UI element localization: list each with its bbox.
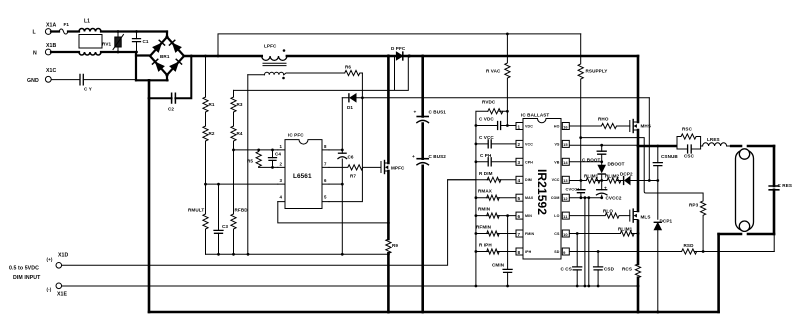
svg-text:MAX: MAX (525, 196, 534, 200)
capacitor CMIN (492, 214, 512, 287)
svg-text:+: + (414, 111, 417, 116)
svg-text:14: 14 (563, 160, 568, 165)
svg-text:FMIN: FMIN (525, 232, 534, 236)
resistor RLO (570, 209, 630, 219)
resistor R7 (329, 165, 381, 179)
wire aux return (247, 75, 249, 255)
wire top sense line (217, 34, 581, 57)
resistor R1 (203, 55, 215, 113)
svg-text:+: + (412, 155, 415, 160)
svg-text:X1C: X1C (46, 68, 57, 74)
resistor RSC (677, 127, 701, 147)
capacitor CSD (594, 252, 615, 288)
resistor RMAX (475, 189, 517, 201)
resistor RVAC (486, 33, 510, 112)
svg-text:8: 8 (518, 250, 521, 255)
wire lamp top leads (731, 145, 774, 148)
svg-text:16: 16 (563, 124, 568, 129)
svg-text:C Y: C Y (84, 87, 92, 92)
svg-text:VCC: VCC (552, 178, 560, 182)
svg-text:3: 3 (518, 160, 521, 165)
svg-text:RLO: RLO (603, 209, 613, 214)
svg-text:RHO: RHO (598, 117, 609, 122)
capacitor C1 (133, 30, 149, 53)
wire VS output (638, 145, 676, 148)
svg-text:5: 5 (518, 196, 521, 201)
svg-text:C RES: C RES (778, 183, 793, 188)
svg-text:6: 6 (518, 214, 521, 219)
svg-text:R3: R3 (237, 102, 243, 107)
capacitor CBUS1 (414, 55, 447, 159)
capacitor CSNUB (653, 145, 678, 220)
capacitor C6 (338, 153, 354, 159)
resistor RHO (570, 117, 630, 129)
svg-text:R9: R9 (392, 243, 398, 248)
lamp filament bottom (739, 221, 749, 231)
diode DCP2 (620, 172, 633, 185)
svg-text:CVCC1: CVCC1 (566, 187, 581, 192)
svg-text:R DIM: R DIM (479, 171, 493, 176)
svg-text:IR21592: IR21592 (535, 169, 549, 215)
capacitor CVCC2 (596, 181, 622, 201)
svg-text:F1: F1 (64, 22, 70, 27)
svg-text:L6561: L6561 (293, 173, 312, 180)
svg-text:X1A: X1A (46, 22, 57, 28)
svg-text:MIN: MIN (525, 214, 532, 218)
capacitor CRES (769, 146, 792, 234)
wire CS pin4 (278, 202, 390, 225)
svg-text:C VDC: C VDC (479, 117, 494, 122)
svg-text:15: 15 (563, 142, 568, 147)
svg-text:10: 10 (563, 232, 568, 237)
wire half-bridge vertical (637, 56, 640, 264)
wire dim return rail (62, 285, 638, 288)
svg-text:5: 5 (324, 195, 327, 200)
svg-text:2: 2 (280, 162, 283, 167)
svg-text:RMAX: RMAX (478, 189, 493, 194)
svg-text:C2: C2 (168, 107, 174, 112)
svg-text:C3: C3 (222, 224, 228, 229)
capacitor CY (52, 74, 136, 91)
bridge diode bottom-left (156, 62, 164, 71)
resistor R9 (386, 239, 399, 253)
svg-text:RVDC: RVDC (482, 100, 496, 105)
wire main bus (184, 55, 638, 58)
diode DPFC (387, 46, 411, 60)
diode DBOOT (598, 162, 624, 181)
svg-text:C VCC: C VCC (479, 135, 494, 140)
svg-text:CSD: CSD (604, 267, 615, 272)
svg-text:3: 3 (280, 178, 283, 183)
svg-text:IC PFC: IC PFC (288, 133, 304, 138)
capacitor CBUS2 (412, 154, 446, 314)
svg-text:RV1: RV1 (102, 42, 111, 47)
svg-text:RSD: RSD (684, 243, 695, 248)
svg-text:13: 13 (563, 178, 568, 183)
resistor RVDC (476, 100, 509, 126)
svg-text:VDC: VDC (525, 125, 533, 129)
svg-text:DIM INPUT: DIM INPUT (13, 275, 41, 281)
terminal X1D (9, 253, 69, 281)
svg-text:(+): (+) (47, 257, 53, 262)
ic IR21592 left pin squares (516, 123, 523, 256)
svg-text:2: 2 (518, 142, 521, 147)
svg-text:C BUS1: C BUS1 (429, 110, 447, 115)
capacitor CVCC (475, 135, 517, 148)
wire source to border (387, 253, 390, 313)
svg-text:C1: C1 (143, 39, 149, 44)
resistor R6 (345, 65, 363, 76)
wire VCC aux vertical (341, 98, 344, 255)
bridge rectifier BR1 (136, 32, 184, 81)
transistor MLS (630, 209, 651, 222)
svg-text:IPH: IPH (525, 250, 532, 254)
wire analog rail (475, 126, 477, 287)
svg-text:C BUS2: C BUS2 (429, 154, 447, 159)
svg-text:+: + (604, 187, 607, 192)
resistor RSUPPLY (578, 34, 607, 181)
op-amp U1 ic L6561 (278, 133, 329, 209)
wire L line (51, 30, 167, 32)
resistor RFMIN (475, 225, 517, 237)
svg-text:7: 7 (518, 232, 521, 237)
svg-text:R1: R1 (209, 102, 215, 107)
terminal X1C (27, 68, 57, 84)
svg-text:VCC: VCC (525, 142, 533, 146)
capacitor CVDC (475, 111, 517, 129)
transistor MHS (630, 120, 651, 133)
svg-text:BR1: BR1 (160, 54, 170, 59)
resistor RFBD (231, 149, 248, 256)
svg-text:X1D: X1D (58, 253, 69, 259)
capacitor C3 (214, 183, 228, 256)
capacitor C4 (269, 149, 282, 169)
wire charge pump line (362, 97, 649, 99)
svg-text:R IPH: R IPH (479, 242, 492, 247)
svg-text:(-): (-) (47, 287, 52, 292)
svg-text:CSNUB: CSNUB (661, 154, 678, 159)
svg-text:C4: C4 (275, 152, 281, 157)
lamp tube (736, 150, 754, 231)
svg-text:N: N (33, 51, 37, 57)
svg-text:D PFC: D PFC (391, 46, 406, 51)
svg-text:COM: COM (551, 196, 560, 200)
wire VB line (570, 161, 602, 163)
svg-text:CMIN: CMIN (492, 263, 505, 268)
svg-text:RMIN: RMIN (478, 207, 491, 212)
resistor R4 (231, 112, 243, 150)
svg-text:12: 12 (563, 196, 568, 201)
wire VCC line (570, 179, 659, 182)
svg-text:GND: GND (27, 78, 39, 84)
capacitor CBOOT (582, 144, 606, 163)
bridge diode top-left (153, 43, 161, 52)
svg-text:DIM: DIM (525, 178, 532, 182)
bridge diode bottom-right (170, 62, 178, 71)
wire negative rail left (148, 80, 151, 312)
svg-text:1: 1 (280, 144, 283, 149)
svg-text:R4: R4 (237, 131, 243, 136)
resistor RIPH (475, 242, 517, 254)
svg-text:C PH: C PH (480, 153, 492, 158)
wire bus feedback tap (234, 56, 409, 90)
svg-text:R7: R7 (350, 174, 356, 179)
svg-text:8: 8 (324, 144, 327, 149)
svg-text:L: L (33, 30, 37, 36)
svg-text:0.5 to 5VDC: 0.5 to 5VDC (9, 266, 39, 272)
resistor RLIM1 (584, 174, 600, 184)
wire COM ground drops (585, 198, 589, 286)
resistor RMULT (188, 183, 208, 255)
svg-text:DBOOT: DBOOT (608, 162, 625, 167)
wire SD sense riser (773, 234, 775, 252)
resistor RP3 (579, 136, 705, 251)
svg-text:VB: VB (554, 160, 559, 164)
svg-text:R2: R2 (209, 131, 215, 136)
svg-text:7: 7 (324, 162, 327, 167)
svg-text:IC BALLAST: IC BALLAST (521, 113, 549, 118)
wire VCC pin8 (329, 149, 342, 151)
resistor RCS (622, 264, 641, 278)
wire INV line (234, 149, 278, 151)
svg-text:D1: D1 (347, 105, 353, 110)
svg-text:4: 4 (280, 195, 283, 200)
svg-text:LPFC: LPFC (264, 44, 277, 49)
svg-text:RFBD: RFBD (235, 208, 249, 213)
svg-text:LRES: LRES (707, 137, 720, 142)
wire DIM input (62, 180, 476, 265)
inductor LPFC aux winding (248, 72, 345, 79)
capacitor CVCC1 (566, 181, 585, 198)
svg-text:RCS: RCS (622, 267, 632, 272)
resistor R3 (231, 90, 243, 112)
svg-text:MPFC: MPFC (391, 166, 405, 171)
svg-text:RSC: RSC (682, 127, 693, 132)
svg-text:1: 1 (518, 124, 521, 129)
wire bottom border (149, 311, 719, 314)
resistor RDIM (448, 171, 516, 183)
resistor RLIM1b (618, 227, 634, 237)
lamp filament top (739, 149, 749, 159)
svg-text:MLS: MLS (641, 215, 651, 220)
inductor LPFC (262, 44, 287, 66)
transistor MPFC (381, 161, 405, 174)
svg-text:CS: CS (554, 232, 560, 236)
wire SD line (570, 250, 774, 253)
svg-text:RSUPPLY: RSUPPLY (586, 69, 608, 74)
wire COMP line (259, 166, 278, 168)
wire RCS bottom (637, 278, 640, 314)
wire lamp bottom leads (719, 234, 774, 312)
svg-text:R VAC: R VAC (486, 69, 501, 74)
varistor RV1 (102, 30, 124, 53)
svg-text:X1E: X1E (57, 292, 68, 298)
svg-text:6: 6 (324, 178, 327, 183)
capacitor CSC (677, 145, 701, 159)
svg-text:RP3: RP3 (689, 203, 699, 208)
wire GND pin6 (329, 183, 342, 185)
svg-text:4: 4 (518, 178, 521, 183)
diode D1 (342, 94, 364, 110)
diode DCP1 (654, 219, 672, 314)
terminal X1B (33, 43, 57, 57)
wire ZCD line (329, 73, 362, 202)
wire MOSFET drain-source (387, 55, 390, 240)
svg-text:SD: SD (554, 250, 559, 254)
resistor R2 (203, 112, 215, 214)
resistor RMIN (475, 207, 517, 219)
wire charge pump drop (648, 98, 650, 181)
wire VS line (570, 144, 638, 146)
svg-text:R6: R6 (345, 65, 351, 70)
wire CS line (570, 232, 638, 235)
svg-text:RFMIN: RFMIN (476, 225, 492, 230)
svg-text:LO: LO (554, 214, 559, 218)
resistor RLIM2 (605, 174, 621, 184)
choke L1 (79, 19, 102, 56)
wire COM line (570, 196, 602, 199)
svg-text:L1: L1 (84, 19, 90, 25)
svg-text:CPH: CPH (525, 160, 533, 164)
svg-text:CSC: CSC (684, 154, 695, 159)
svg-text:11: 11 (563, 214, 568, 219)
svg-text:RMULT: RMULT (188, 208, 204, 213)
ic IR21592 pin names (525, 125, 560, 254)
fuse F1 (59, 22, 69, 34)
svg-text:C6: C6 (348, 155, 354, 160)
svg-text:X1B: X1B (46, 43, 57, 49)
resistor RSD (682, 243, 697, 254)
ic IR21592 right pin squares (562, 123, 569, 256)
bridge diode top-right (173, 43, 181, 52)
capacitor C2 (148, 55, 193, 112)
inductor LRES (701, 137, 732, 146)
ic IR21592 (521, 113, 561, 260)
svg-text:C CS: C CS (561, 267, 572, 272)
svg-text:CVCC2: CVCC2 (606, 196, 622, 201)
resistor R5 (247, 149, 261, 168)
svg-text:DCP2: DCP2 (620, 172, 633, 177)
wire signal ground rail (206, 253, 390, 256)
wire N line (51, 52, 136, 80)
capacitor CCS (561, 234, 591, 288)
svg-text:VS: VS (555, 142, 560, 146)
capacitor CPH (475, 153, 517, 166)
wire MULT line (206, 183, 278, 185)
terminal X1A (33, 22, 57, 35)
terminal X1E (47, 283, 68, 298)
svg-text:HO: HO (554, 125, 560, 129)
svg-text:R5: R5 (247, 159, 253, 164)
